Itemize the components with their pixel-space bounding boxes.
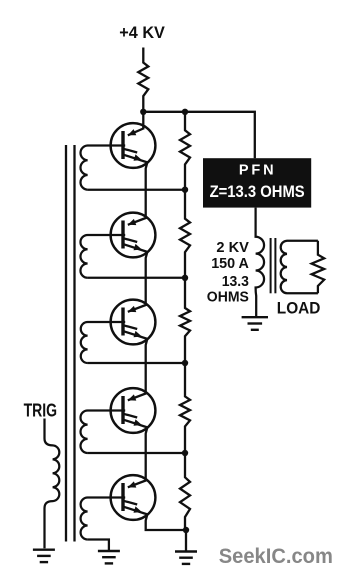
ground symbol trigger winding L5: [98, 550, 120, 552]
svg-text:2 KV: 2 KV: [216, 240, 249, 256]
svg-text:Z=13.3 OHMS: Z=13.3 OHMS: [210, 182, 305, 201]
LOAD label: [277, 299, 321, 318]
resistor R4 (grading chain): [180, 278, 190, 363]
PFN block box (pulse forming network): [203, 158, 311, 207]
resistor R5 (grading chain): [180, 363, 190, 453]
wire chain bottom to ground: [185, 530, 187, 551]
transistor Q5: [111, 475, 156, 520]
inductor output transformer T2 primary winding: [256, 208, 264, 317]
PFN label: [239, 163, 274, 179]
transformer T1 core line 2: [73, 145, 75, 542]
node TRIG input label: [24, 401, 58, 421]
wire emitter Q1 to collector Q2: [146, 162, 148, 219]
inductor output transformer T2 secondary winding: [281, 241, 318, 294]
svg-text:150 A: 150 A: [211, 256, 249, 272]
svg-text:13.3: 13.3: [222, 274, 249, 290]
wire collector feed Q1: [142, 112, 144, 130]
junction dot node A (supply/collector Q1): [140, 109, 146, 115]
wire emitter Q5 to chain bottom node: [146, 514, 185, 530]
transformer T2 core line 2: [274, 238, 276, 293]
resistor R3 (grading chain): [180, 190, 190, 278]
inductor L3 trigger transformer secondary (base winding Q3): [81, 322, 125, 363]
resistor R2 (grading chain): [180, 112, 190, 190]
value label 150 A: [211, 256, 249, 272]
junction dot chain row 5: [182, 450, 188, 456]
wire coil L4 bottom to grading chain row 5: [88, 452, 185, 454]
svg-text:PFN: PFN: [239, 163, 274, 179]
junction dot node B (top of grading chain): [182, 109, 188, 115]
svg-text:TRIG: TRIG: [24, 401, 58, 421]
inductor L6 trigger transformer primary (TRIG winding): [45, 419, 60, 549]
svg-text:SeekIC.com: SeekIC.com: [219, 545, 333, 568]
wire emitter Q3 to collector Q4: [146, 339, 148, 395]
svg-text:LOAD: LOAD: [277, 299, 321, 318]
inductor L1 trigger transformer secondary (base winding Q1): [81, 146, 126, 190]
ground symbol chain (bottom right): [175, 550, 197, 552]
resistor load (zigzag): [312, 241, 325, 294]
svg-text:+4 KV: +4 KV: [119, 23, 165, 42]
inductor L2 trigger transformer secondary (base winding Q2): [80, 235, 125, 278]
wire emitter Q4 to collector Q5: [146, 427, 148, 481]
value label 2 KV: [216, 240, 249, 256]
value label OHMS: [207, 290, 249, 306]
ground symbol TRIG: [33, 549, 55, 551]
watermark SeekIC.com: [219, 545, 333, 568]
wire coil L5 bottom to ground stem: [88, 540, 109, 552]
wire coil L3 bottom to grading chain row 4: [88, 362, 185, 364]
transformer T1 core line 1: [65, 145, 67, 542]
transistor Q3: [111, 300, 156, 345]
value label 13.3: [222, 274, 249, 290]
transistor Q2: [111, 213, 156, 258]
svg-text:OHMS: OHMS: [207, 290, 249, 306]
transformer T2 core line 1: [270, 238, 272, 293]
transistor Q1: [111, 123, 156, 168]
ground symbol output transformer primary: [242, 316, 268, 318]
inductor L4 trigger transformer secondary (base winding Q4): [81, 411, 126, 454]
wire top bus from supply node to PFN: [143, 112, 255, 158]
junction dot chain bottom node: [183, 527, 189, 533]
resistor R6 (grading chain): [180, 453, 190, 530]
wire emitter Q2 to collector Q3: [146, 252, 148, 306]
PFN impedance value label Z=13.3 OHMS: [210, 182, 305, 201]
transistor Q4: [111, 388, 156, 433]
inductor L5 trigger transformer secondary (base winding Q5): [81, 498, 126, 540]
junction dot chain row 2: [182, 187, 188, 193]
resistor R1 (supply feed): [138, 48, 148, 112]
wire coil L2 bottom to grading chain row 3: [88, 277, 185, 279]
wire coil L1 bottom to grading chain row 2: [88, 189, 185, 191]
node +4KV supply label: [119, 23, 165, 42]
junction dot chain row 4: [182, 360, 188, 366]
junction dot chain row 3: [182, 275, 188, 281]
